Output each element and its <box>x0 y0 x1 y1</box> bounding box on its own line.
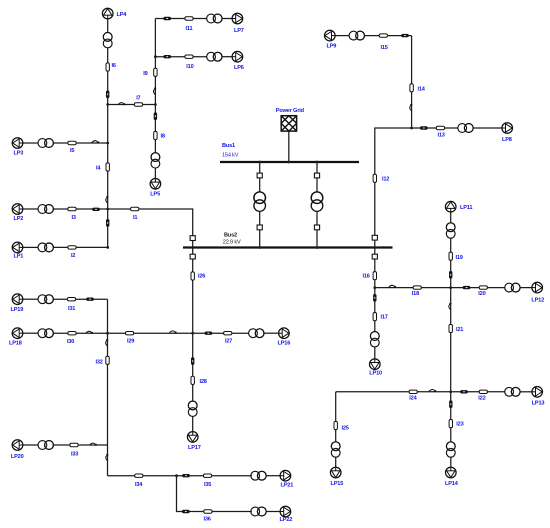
wire I24-I22 row <box>336 391 505 393</box>
switch LP20 row <box>90 443 97 446</box>
line element I4 <box>106 163 109 171</box>
switch I29 row <box>169 331 176 334</box>
breaker I16 feeder <box>372 254 377 259</box>
node I10 row <box>154 55 157 58</box>
wire LP2 to T-LP2 <box>23 208 39 210</box>
wire T-LP6 to LP6 <box>222 56 232 58</box>
wire T-LP21 to LP21 <box>265 475 280 477</box>
line element I14 <box>410 84 413 92</box>
breaker I12 feeder <box>372 235 377 240</box>
svg-text:I23: I23 <box>456 422 463 428</box>
transformer T-LP4 <box>103 32 112 47</box>
line element I15 <box>379 34 387 37</box>
node LP1 row <box>106 246 109 249</box>
switch I32 column lower <box>106 454 109 461</box>
wire T-LP17 to LP17 <box>192 416 194 432</box>
wire I32 column <box>107 299 109 476</box>
transformer T-LP17 <box>188 401 197 416</box>
line element I34 <box>135 474 143 477</box>
breaker TR2 LV <box>314 225 319 230</box>
svg-text:LP6: LP6 <box>234 65 244 71</box>
node I18 right <box>449 286 452 289</box>
fuse I22 row <box>460 390 468 393</box>
wire I20 row <box>451 287 505 289</box>
load LP5 <box>150 179 161 190</box>
switch I24 row <box>429 390 436 393</box>
load LP20 <box>12 440 23 451</box>
wire I25 column <box>335 392 337 442</box>
line element I30 <box>68 332 76 335</box>
line element I9 <box>154 68 157 76</box>
transformer TR2 <box>311 192 323 212</box>
svg-text:I24: I24 <box>409 395 417 401</box>
svg-text:I25: I25 <box>342 426 349 432</box>
fuse I20 row <box>463 286 471 289</box>
wire T-LP13 to LP13 <box>520 391 532 393</box>
load LP18 <box>12 328 23 339</box>
node I12 Bus2 <box>373 246 376 249</box>
transformer T-LP9 <box>349 31 364 40</box>
svg-text:LP17: LP17 <box>188 445 201 451</box>
wire I2 row to column <box>53 246 107 248</box>
svg-text:I33: I33 <box>71 451 78 457</box>
switch column A <box>106 196 109 203</box>
wire I10 row <box>155 56 207 58</box>
wire I29-I27 row <box>108 332 249 334</box>
load LP17 <box>187 432 198 443</box>
wire I15 row <box>364 35 411 37</box>
svg-text:I5: I5 <box>70 148 74 154</box>
load LP16 <box>279 328 290 339</box>
svg-text:I16: I16 <box>363 274 370 280</box>
transformer T-LP16 <box>249 329 264 338</box>
svg-text:I27: I27 <box>225 338 232 344</box>
wire T-LP5 to LP5 <box>154 168 156 178</box>
load LP10 <box>370 359 381 370</box>
line element I16 <box>373 272 376 280</box>
wire I34-I35 row <box>108 475 252 477</box>
node grid Bus1 <box>287 161 290 164</box>
fuse I15 row <box>401 34 409 37</box>
svg-text:I8: I8 <box>161 134 165 140</box>
transformer T-LP8 <box>458 124 473 133</box>
svg-text:LP16: LP16 <box>278 341 291 347</box>
svg-text:Power Grid: Power Grid <box>276 108 305 114</box>
wire T-LP22 to LP22 <box>265 511 280 513</box>
fuse I28 column <box>191 357 194 365</box>
wire I31 row <box>53 298 107 300</box>
fuse I23 column <box>449 400 452 408</box>
wire TR1 to Bus2 <box>259 211 261 247</box>
load LP1 <box>12 242 23 253</box>
wire I36 row <box>177 476 252 512</box>
svg-text:I36: I36 <box>204 516 211 522</box>
wire T-LP8 to LP8 <box>473 127 502 129</box>
breaker TR2 HV <box>314 173 319 178</box>
wire I33 row <box>53 444 107 446</box>
wire LP19 to T-LP19 <box>23 298 39 300</box>
wire column I6-I4 down to LP1 row <box>107 48 109 248</box>
transformer T-LP15 <box>331 442 340 457</box>
wire I11 row <box>155 18 207 20</box>
switch I32 column <box>106 339 109 346</box>
line element I6 <box>106 63 109 71</box>
line element I28 <box>191 376 194 384</box>
svg-text:I7: I7 <box>136 95 140 101</box>
svg-text:LP19: LP19 <box>11 307 24 313</box>
svg-text:I28: I28 <box>200 379 207 385</box>
load LP3 <box>12 138 23 149</box>
node TR1 Bus2 <box>258 246 261 249</box>
transformer T-LP22 <box>251 507 266 516</box>
fuse column A lower <box>106 219 109 227</box>
svg-text:LP9: LP9 <box>327 44 337 50</box>
load LP13 <box>532 387 543 398</box>
load LP22 <box>280 506 291 517</box>
svg-text:22.9 kV: 22.9 kV <box>223 240 241 246</box>
line element I7 <box>134 103 142 106</box>
transformer T-LP10 <box>370 332 379 347</box>
wire LP11 to T-LP11 <box>450 212 452 223</box>
wire T-LP15 to LP15 <box>335 457 337 467</box>
svg-text:I11: I11 <box>186 26 193 32</box>
line element I20 <box>479 286 487 289</box>
svg-text:LP5: LP5 <box>150 192 160 198</box>
wire T-LP7 to LP7 <box>222 18 232 20</box>
load LP7 <box>232 13 243 24</box>
bus Bus1 154kV <box>220 161 359 163</box>
wire I3 row to column <box>53 208 107 210</box>
fuse I36 row <box>182 510 190 513</box>
svg-text:LP11: LP11 <box>460 205 472 211</box>
svg-text:LP8: LP8 <box>502 137 512 143</box>
wire TR2 to Bus2 <box>316 211 318 247</box>
line element I3 <box>68 207 76 210</box>
line element I22 <box>479 390 487 393</box>
svg-text:I29: I29 <box>127 339 134 345</box>
svg-text:LP14: LP14 <box>445 481 459 487</box>
fuse I11 row <box>163 17 171 20</box>
transformer T-LP7 <box>207 14 222 23</box>
transformer T-LP6 <box>207 52 222 61</box>
breaker TR1 LV <box>257 225 262 230</box>
wire T-LP10 to LP10 <box>374 347 376 359</box>
svg-text:LP1: LP1 <box>14 254 24 260</box>
line element I27 <box>224 332 232 335</box>
svg-text:Bus1: Bus1 <box>222 143 235 149</box>
svg-text:I17: I17 <box>381 315 388 321</box>
node TR1 Bus1 <box>258 161 261 164</box>
node TR2 Bus1 <box>316 161 319 164</box>
transformer T-LP13 <box>505 387 520 396</box>
svg-text:I34: I34 <box>135 482 143 488</box>
svg-text:LP3: LP3 <box>14 150 24 156</box>
transformer T-LP1 <box>38 243 53 252</box>
svg-text:I32: I32 <box>96 360 103 366</box>
svg-text:I22: I22 <box>478 395 485 401</box>
line element I31 <box>67 298 75 301</box>
fuse I17 column <box>373 294 376 302</box>
line element I24 <box>409 390 417 393</box>
load LP12 <box>532 282 543 293</box>
line element I23 <box>449 420 452 428</box>
svg-text:I31: I31 <box>68 306 75 312</box>
svg-text:I30: I30 <box>67 339 74 345</box>
wire T-LP16 to LP16 <box>264 332 279 334</box>
fuse I10 row <box>163 55 171 58</box>
svg-text:I26: I26 <box>198 274 205 280</box>
line element I12 <box>373 174 376 182</box>
fuse I35 row <box>182 474 190 477</box>
transformer TR1 <box>254 192 266 212</box>
node I7/column A <box>106 103 109 106</box>
node I30 row <box>106 332 109 335</box>
wire LP18 to T-LP18 <box>23 332 39 334</box>
fuse I13 row <box>420 126 428 129</box>
node TR2 Bus2 <box>316 246 319 249</box>
svg-text:LP15: LP15 <box>331 481 344 487</box>
line element I17 <box>373 313 376 321</box>
svg-text:Bus2: Bus2 <box>224 233 237 239</box>
line element I8 <box>154 131 157 139</box>
load LP2 <box>12 204 23 215</box>
wire LP3 to T-LP3 <box>23 142 39 144</box>
wire LP20 to T-LP20 <box>23 444 39 446</box>
transformer T-LP11 <box>446 223 455 238</box>
svg-text:I15: I15 <box>381 45 388 51</box>
transformer T-LP21 <box>251 471 266 480</box>
svg-text:LP22: LP22 <box>280 517 293 523</box>
wire LP9 to T-LP9 <box>335 35 349 37</box>
transformer T-LP5 <box>151 153 160 168</box>
svg-text:LP2: LP2 <box>14 216 24 222</box>
wire Bus1 to TR1 <box>259 162 261 192</box>
breaker TR1 HV <box>257 173 262 178</box>
load LP14 <box>446 467 457 478</box>
switch I7 row <box>118 103 125 106</box>
load LP8 <box>502 123 513 134</box>
line element I18 <box>413 286 421 289</box>
node I13/I14 <box>410 127 413 130</box>
svg-text:LP10: LP10 <box>369 370 382 376</box>
load LP9 <box>325 30 336 41</box>
line element I35 <box>203 474 211 477</box>
load LP19 <box>12 294 23 305</box>
switch I21 column <box>449 303 452 310</box>
svg-text:I6: I6 <box>112 63 116 69</box>
fuse LP19 row <box>86 298 94 301</box>
svg-text:I4: I4 <box>96 166 101 172</box>
external grid Power Grid <box>281 116 296 131</box>
wire I19-I21 column <box>450 238 452 392</box>
node I1 Bus2 <box>191 246 194 249</box>
wire I23 column <box>450 392 452 442</box>
switch I14 column <box>410 104 413 111</box>
node I18 left <box>373 286 376 289</box>
svg-text:LP13: LP13 <box>532 400 545 406</box>
svg-text:I1: I1 <box>133 215 137 221</box>
svg-text:LP18: LP18 <box>9 341 22 347</box>
node I29 crossing <box>191 332 194 335</box>
wire T-LP14 to LP14 <box>450 457 452 467</box>
transformer T-LP14 <box>446 442 455 457</box>
svg-text:I18: I18 <box>412 291 419 297</box>
line element I21 <box>449 324 452 332</box>
node LP2 row <box>106 208 109 211</box>
svg-text:I9: I9 <box>143 71 147 77</box>
transformer T-LP12 <box>505 283 520 292</box>
node I34 row <box>175 474 178 477</box>
svg-text:I10: I10 <box>186 64 193 70</box>
line element I26 <box>191 272 194 280</box>
node I24 row <box>449 390 452 393</box>
line element I36 <box>204 510 212 513</box>
transformer T-LP18 <box>38 329 53 338</box>
wire I14 column <box>411 36 413 128</box>
wire LP1 to T-LP1 <box>23 246 39 248</box>
load LP4 <box>102 8 113 19</box>
switch I18 row <box>389 285 396 288</box>
line element I29 <box>126 332 134 335</box>
transformer T-LP20 <box>38 441 53 450</box>
wire I7 row <box>108 104 156 106</box>
wire I26-I28 column <box>192 248 194 402</box>
load LP11 <box>445 201 456 212</box>
svg-text:LP21: LP21 <box>281 483 294 489</box>
svg-text:I13: I13 <box>438 133 445 139</box>
svg-text:LP20: LP20 <box>11 454 24 460</box>
bus Bus2 22.9kV <box>183 246 393 248</box>
wire I18 row <box>375 287 451 289</box>
svg-text:I20: I20 <box>478 291 485 297</box>
line element I19 <box>449 252 452 260</box>
node I5/column A <box>106 142 109 145</box>
fuse column B <box>154 112 157 120</box>
transformer T-LP19 <box>38 295 53 304</box>
svg-text:LP4: LP4 <box>117 12 128 18</box>
breaker I26 feeder <box>190 254 195 259</box>
load LP6 <box>232 51 243 62</box>
transformer T-LP2 <box>38 205 53 214</box>
line element I5 <box>68 141 76 144</box>
load LP21 <box>280 470 291 481</box>
switch LP3 row <box>92 141 99 144</box>
svg-text:I12: I12 <box>382 176 389 182</box>
svg-text:154 kV: 154 kV <box>222 153 239 159</box>
fuse LP2 row <box>92 208 100 211</box>
line element I2 <box>68 246 76 249</box>
line element I10 <box>185 55 193 58</box>
fuse I27 row <box>205 332 213 335</box>
svg-text:I21: I21 <box>456 327 463 333</box>
wire LP4 to T-LP4 <box>107 19 109 33</box>
svg-text:I19: I19 <box>456 255 463 261</box>
wire T-LP12 to LP12 <box>520 287 532 289</box>
wire I13 row <box>412 127 459 129</box>
wire I5 row to column <box>53 142 107 144</box>
wire Bus1 to TR2 <box>316 162 318 192</box>
svg-text:I35: I35 <box>204 482 211 488</box>
load LP15 <box>330 467 341 478</box>
switch LP18 row <box>86 331 93 334</box>
svg-text:I3: I3 <box>72 215 76 221</box>
switch column B <box>154 87 157 94</box>
wire I16-I17 column <box>374 248 376 332</box>
line element I25 <box>334 421 337 429</box>
breaker I1 feeder <box>190 236 195 241</box>
wire grid to Bus1 <box>288 131 290 162</box>
wire column I9-I8 <box>154 19 156 153</box>
line element I33 <box>70 443 78 446</box>
svg-text:I14: I14 <box>418 87 426 93</box>
line element I1 <box>131 207 139 210</box>
svg-text:I2: I2 <box>71 253 75 259</box>
wire I30 row <box>53 332 107 334</box>
svg-text:LP12: LP12 <box>531 297 544 303</box>
line element I11 <box>185 17 193 20</box>
wire I12 column <box>375 128 412 248</box>
transformer T-LP3 <box>38 139 53 148</box>
svg-text:LP7: LP7 <box>234 28 244 34</box>
line element I13 <box>436 126 444 129</box>
fuse I19 column <box>449 271 452 279</box>
fuse column A upper <box>106 91 109 99</box>
line element I32 <box>106 356 109 364</box>
wire I1 row to Bus2 <box>108 209 193 248</box>
node I7/column B <box>154 103 157 106</box>
